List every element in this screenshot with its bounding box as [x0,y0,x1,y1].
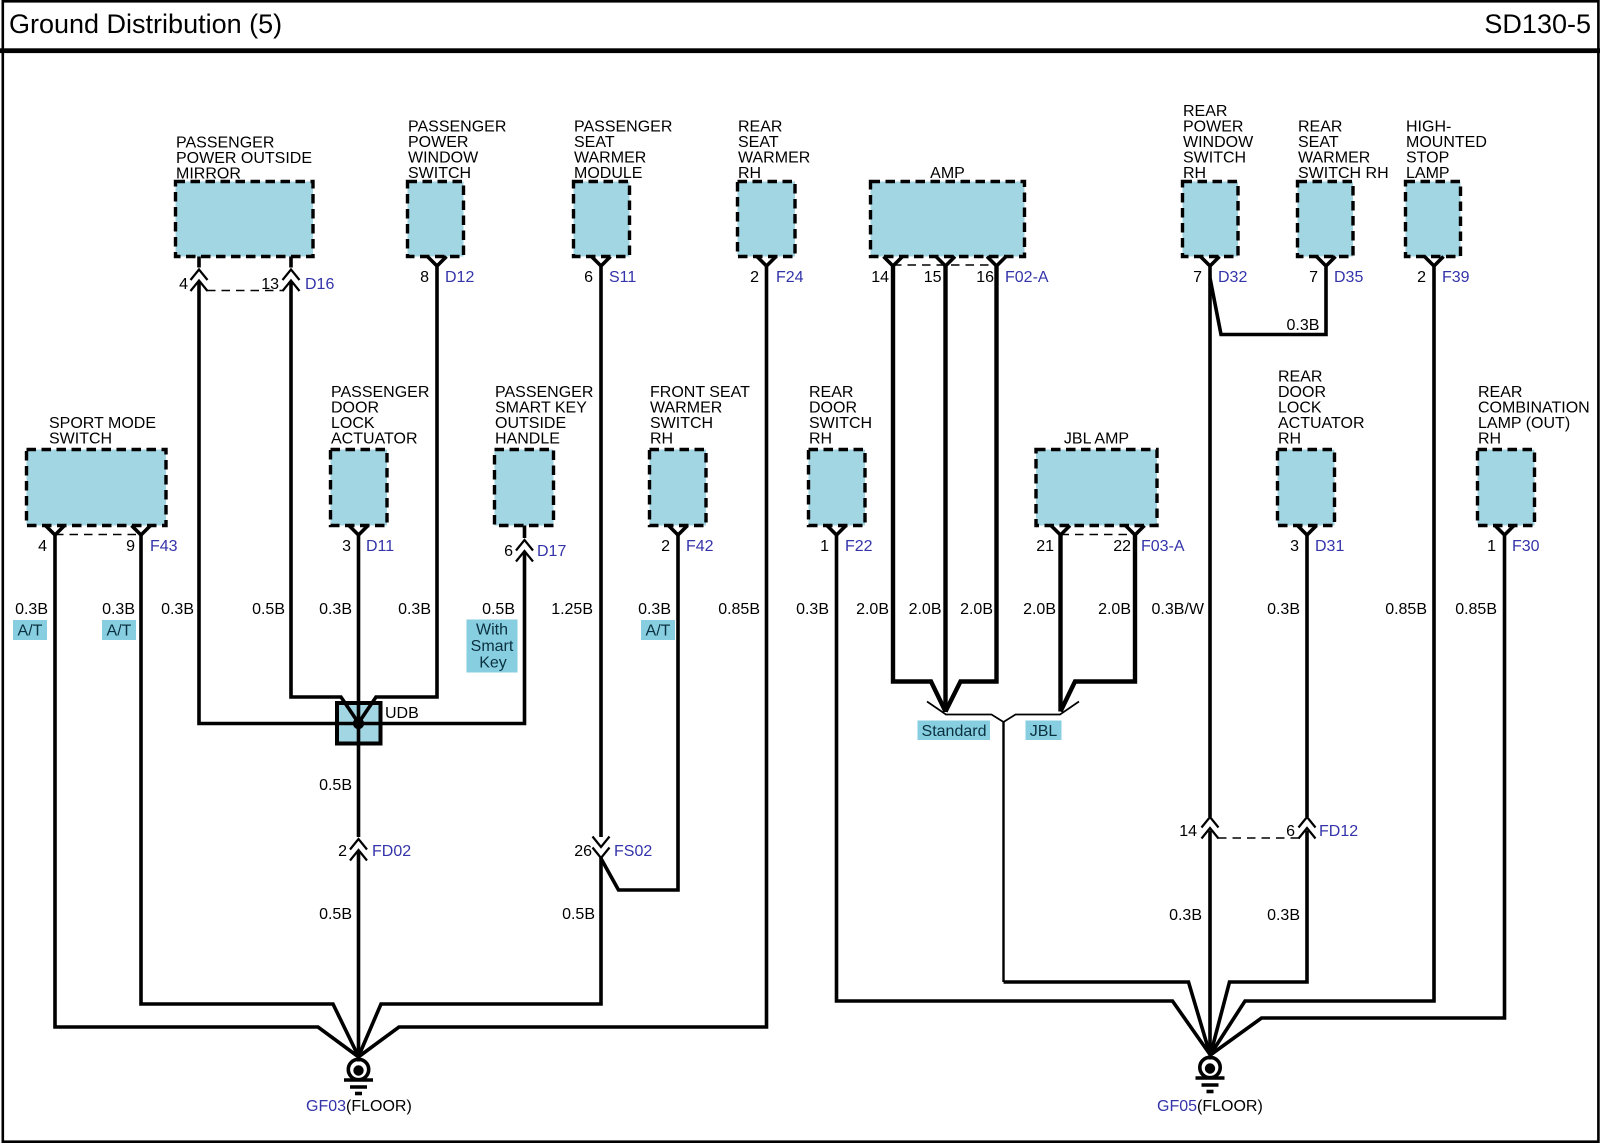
svg-text:1: 1 [820,538,829,555]
svg-text:0.3B: 0.3B [1169,907,1202,924]
svg-text:SMART KEY: SMART KEY [495,400,587,417]
svg-text:SWITCH: SWITCH [49,431,112,448]
svg-text:LAMP: LAMP [1406,165,1450,182]
svg-text:0.3B: 0.3B [319,601,352,618]
wire mirror pin13 0.5B to UDB [291,257,358,722]
svg-text:LOCK: LOCK [331,415,375,432]
svg-text:0.5B: 0.5B [562,906,595,923]
wire D12 0.3B to UDB [360,266,438,722]
pin 3 funnel [1298,526,1317,536]
svg-text:Standard: Standard [922,723,987,740]
svg-text:9: 9 [126,538,135,555]
amplifier AMP [871,165,1025,257]
svg-text:LAMP (OUT): LAMP (OUT) [1478,415,1570,432]
svg-text:REAR: REAR [1298,119,1342,136]
rear seat warmer switch RH [1298,119,1389,257]
option tag A/T [641,620,675,640]
svg-text:D31: D31 [1315,538,1344,555]
pin 21 funnel [1051,526,1070,536]
svg-text:A/T: A/T [646,623,671,640]
wire F42 0.3B joining FS02 line [601,535,678,890]
svg-text:WARMER: WARMER [574,150,646,167]
pin 2 funnel [1425,257,1444,267]
svg-text:JBL: JBL [1030,723,1058,740]
svg-text:2.0B: 2.0B [960,601,993,618]
pin 3 funnel [349,526,368,536]
svg-text:0.3B: 0.3B [638,601,671,618]
svg-text:D32: D32 [1218,269,1247,286]
wire JBL pin22 2.0B [1061,535,1136,712]
svg-text:SWITCH: SWITCH [1183,150,1246,167]
pin 2 funnel [757,257,776,267]
rear door switch RH [809,384,873,526]
svg-text:0.3B/W: 0.3B/W [1152,601,1205,618]
pin 1 funnel [827,526,846,536]
svg-text:F22: F22 [845,538,873,555]
svg-text:16: 16 [976,269,994,286]
svg-text:A/T: A/T [107,623,132,640]
ground GF03 [344,1057,373,1094]
svg-text:15: 15 [924,269,942,286]
passenger door lock actuator [331,384,430,526]
svg-text:7: 7 [1193,269,1202,286]
svg-text:2.0B: 2.0B [1023,601,1056,618]
svg-text:HANDLE: HANDLE [495,431,560,448]
svg-text:Key: Key [479,655,507,672]
wire F22 0.3B to ground bus [837,535,1211,1055]
pin 16 funnel [987,257,1006,267]
svg-text:PASSENGER: PASSENGER [495,384,593,401]
svg-text:0.5B: 0.5B [252,601,285,618]
svg-text:F02-A: F02-A [1005,269,1049,286]
svg-text:POWER: POWER [408,134,468,151]
svg-text:2: 2 [338,843,347,860]
svg-text:F03-A: F03-A [1141,538,1185,555]
svg-text:2.0B: 2.0B [909,601,942,618]
passenger power outside mirror [176,135,314,257]
svg-text:14: 14 [871,269,889,286]
svg-text:26: 26 [574,843,592,860]
svg-text:D11: D11 [366,538,394,555]
svg-text:UDB: UDB [385,705,419,722]
svg-text:D35: D35 [1334,269,1363,286]
svg-text:4: 4 [38,538,47,555]
option tag Standard [918,721,991,741]
svg-text:SEAT: SEAT [1298,134,1339,151]
svg-text:PASSENGER: PASSENGER [574,119,672,136]
svg-text:FS02: FS02 [614,843,652,860]
connector FS02 chevrons [593,837,610,859]
svg-text:1.25B: 1.25B [551,601,593,618]
svg-text:2: 2 [661,538,670,555]
pin 1 funnel [1495,526,1514,536]
pin 6 funnel [592,257,611,267]
svg-text:WARMER: WARMER [650,400,722,417]
pin 8 funnel [428,257,447,267]
connector FD02 chevrons [350,839,367,861]
header rule [0,48,1600,53]
svg-text:REAR: REAR [809,384,853,401]
svg-text:RH: RH [1478,431,1501,448]
svg-text:DOOR: DOOR [1278,384,1326,401]
svg-text:0.3B: 0.3B [796,601,829,618]
svg-text:RH: RH [1278,431,1301,448]
wire D11 0.3B through UDB and FD02 to ground GF03 [357,535,361,1057]
svg-text:2: 2 [750,269,759,286]
passenger power window switch [408,119,507,257]
svg-text:WINDOW: WINDOW [408,150,479,167]
JBL AMP [1036,431,1157,526]
svg-text:0.3B: 0.3B [15,601,48,618]
svg-text:FD12: FD12 [1319,823,1358,840]
connector F02-A dashed boundary [893,264,997,266]
svg-text:21: 21 [1036,538,1054,555]
svg-text:0.85B: 0.85B [1385,601,1427,618]
pin 4 funnel [46,526,65,536]
svg-text:F24: F24 [776,269,804,286]
svg-text:0.85B: 0.85B [1455,601,1497,618]
svg-text:0.3B: 0.3B [161,601,194,618]
svg-text:F43: F43 [150,538,178,555]
wire AMP pin16 2.0B [946,266,997,712]
svg-text:D17: D17 [537,543,566,560]
ground GF05 [1196,1055,1225,1092]
wire JBL pin21 2.0B [1058,535,1062,712]
svg-text:RH: RH [809,431,832,448]
connector FD12 pin 6 chevrons [1299,817,1316,839]
svg-text:D16: D16 [305,276,334,293]
wire D17 0.5B to UDB [361,526,525,724]
svg-text:0.85B: 0.85B [718,601,760,618]
pin 2 funnel [669,526,688,536]
connector F03-A dashed boundary [1061,534,1136,536]
front seat warmer switch RH [650,384,751,526]
svg-text:0.5B: 0.5B [319,777,352,794]
svg-text:DOOR: DOOR [331,400,379,417]
svg-text:AMP: AMP [930,165,965,182]
svg-text:SWITCH: SWITCH [408,165,471,182]
rear door lock actuator RH [1278,369,1365,526]
svg-text:ACTUATOR: ACTUATOR [331,431,418,448]
svg-text:WINDOW: WINDOW [1183,134,1254,151]
svg-text:REAR: REAR [1278,369,1322,386]
wire D32 0.3B/W through FD12 to ground GF05 [1208,266,1212,1055]
passenger smart key outside handle [495,384,594,526]
svg-text:S11: S11 [609,269,636,286]
option tag With Smart Key [467,620,518,673]
svg-text:3: 3 [1290,538,1299,555]
wire merged option to ground bus [1002,722,1004,982]
pin 15 funnel [936,257,955,267]
svg-text:3: 3 [342,538,351,555]
svg-text:MOUNTED: MOUNTED [1406,134,1487,151]
svg-text:A/T: A/T [18,623,43,640]
svg-text:REAR: REAR [738,119,782,136]
svg-text:0.3B: 0.3B [1267,601,1300,618]
svg-text:0.5B: 0.5B [482,601,515,618]
svg-text:Smart: Smart [471,638,514,655]
rear combination lamp (out) RH [1478,384,1590,526]
svg-text:D12: D12 [445,269,474,286]
svg-text:REAR: REAR [1478,384,1522,401]
wire sport pin4 0.3B to ground bus [55,535,358,1057]
svg-text:SEAT: SEAT [738,134,779,151]
svg-text:POWER: POWER [1183,119,1243,136]
svg-text:0.3B: 0.3B [1287,317,1320,334]
svg-text:STOP: STOP [1406,150,1449,167]
connector F43 dashed boundary [55,534,141,536]
connector D16 dashed boundary [207,290,283,292]
wire D35 joining branch 0.3B [1210,266,1326,335]
svg-text:SPORT MODE: SPORT MODE [49,415,156,432]
wire F24 0.85B to ground bus [359,266,767,1057]
svg-text:Ground Distribution (5): Ground Distribution (5) [9,9,282,39]
option tag A/T [102,620,136,640]
wire S11 1.25B to ground bus [359,266,602,1057]
svg-text:F39: F39 [1442,269,1470,286]
svg-text:GF03(FLOOR): GF03(FLOOR) [306,1098,412,1115]
svg-text:SWITCH: SWITCH [650,415,713,432]
passenger seat warmer module [574,119,673,257]
high-mounted stop lamp [1406,119,1487,257]
svg-text:RH: RH [650,431,673,448]
svg-text:0.5B: 0.5B [319,906,352,923]
svg-text:MODULE: MODULE [574,165,642,182]
svg-text:2.0B: 2.0B [1098,601,1131,618]
svg-text:1: 1 [1487,538,1496,555]
option tag A/T [13,620,47,640]
svg-text:COMBINATION: COMBINATION [1478,400,1590,417]
svg-text:14: 14 [1179,823,1197,840]
svg-text:OUTSIDE: OUTSIDE [495,415,566,432]
svg-text:SWITCH RH: SWITCH RH [1298,165,1389,182]
pin 9 funnel [132,526,151,536]
svg-text:ACTUATOR: ACTUATOR [1278,415,1365,432]
rear seat warmer RH [738,119,811,257]
connector D16 pin 4 chevrons [191,270,208,292]
svg-text:0.3B: 0.3B [102,601,135,618]
svg-text:FD02: FD02 [372,843,411,860]
svg-text:JBL AMP: JBL AMP [1064,431,1129,448]
junction UDB [337,703,419,744]
svg-text:RH: RH [1183,165,1206,182]
svg-text:With: With [476,622,508,639]
svg-text:6: 6 [584,269,593,286]
svg-text:POWER OUTSIDE: POWER OUTSIDE [176,150,312,167]
svg-text:SD130-5: SD130-5 [1484,9,1591,39]
svg-text:PASSENGER: PASSENGER [176,135,274,152]
wire sport pin9 0.3B to ground bus [141,535,359,1057]
svg-text:GF05(FLOOR): GF05(FLOOR) [1157,1098,1263,1115]
wire AMP pin14 2.0B [893,266,946,712]
svg-text:4: 4 [179,276,188,293]
pin 7 funnel [1317,257,1336,267]
pin 22 funnel [1126,526,1145,536]
svg-text:PASSENGER: PASSENGER [408,119,506,136]
svg-text:F42: F42 [686,538,714,555]
pin 14 funnel [884,257,903,267]
svg-text:SWITCH: SWITCH [809,415,872,432]
connector D16 pin 13 chevrons [283,270,300,292]
svg-text:8: 8 [420,269,429,286]
option merge standard/JBL [927,702,1079,723]
sport mode switch [27,415,167,526]
svg-text:7: 7 [1309,269,1318,286]
svg-text:SEAT: SEAT [574,134,615,151]
connector FD12 dashed boundary [1218,837,1299,839]
svg-text:PASSENGER: PASSENGER [331,384,429,401]
svg-text:0.3B: 0.3B [398,601,431,618]
rear power window switch RH [1183,103,1255,257]
option tag JBL [1026,721,1062,741]
wire mirror pin4 0.3B to UDB [199,257,356,724]
wire F39 0.85B to ground bus [1211,266,1435,1055]
svg-text:RH: RH [738,165,761,182]
wire AMP pin15 2.0B [943,266,947,712]
connector FD12 pin 14 chevrons [1202,817,1219,839]
svg-text:2.0B: 2.0B [856,601,889,618]
svg-text:6: 6 [504,543,513,560]
svg-text:WARMER: WARMER [1298,150,1370,167]
svg-text:REAR: REAR [1183,103,1227,120]
svg-text:2: 2 [1417,269,1426,286]
wire D31 0.3B through FD12 pin6 to ground bus [1211,535,1308,1055]
connector D17 chevrons [516,540,533,562]
svg-text:HIGH-: HIGH- [1406,119,1451,136]
pin 7 funnel [1201,257,1220,267]
svg-text:DOOR: DOOR [809,400,857,417]
svg-text:WARMER: WARMER [738,150,810,167]
svg-text:0.3B: 0.3B [1267,907,1300,924]
svg-text:F30: F30 [1512,538,1540,555]
wire F30 0.85B to ground bus [1211,535,1505,1055]
svg-text:LOCK: LOCK [1278,400,1322,417]
svg-text:22: 22 [1113,538,1131,555]
svg-text:FRONT SEAT: FRONT SEAT [650,384,750,401]
